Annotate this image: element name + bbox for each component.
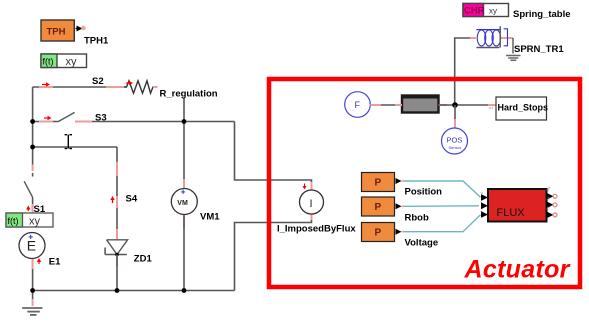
label R_regulation — [158, 86, 220, 100]
label I_ImposedByFlux — [277, 223, 356, 234]
wire: resistor to corner — [157, 87, 184, 122]
switch S3 pink leads — [39, 121, 92, 123]
wire: mid row from rail to S4 — [33, 146, 117, 148]
ground (bottom left) — [22, 291, 42, 315]
label S4 — [126, 194, 138, 205]
I-source pink lead bottom — [311, 214, 313, 220]
svg-text:S3: S3 — [95, 113, 107, 124]
label E1 — [49, 257, 61, 268]
svg-text:P: P — [375, 228, 382, 239]
tiny pin label s1 — [489, 105, 494, 110]
svg-text:ZD1: ZD1 — [134, 254, 153, 265]
signal wire: Voltage to FLUX — [404, 215, 481, 232]
P Voltage output arrow — [396, 229, 405, 235]
junction node: rail/mid row — [30, 145, 35, 150]
mass pink leads — [395, 104, 447, 106]
wire: node to I-source (down, right, down) — [235, 122, 312, 191]
red arrow S2 — [42, 82, 50, 86]
wire: S3 row left segment — [33, 121, 58, 123]
wire: S3 row right segment — [75, 121, 235, 123]
wire: VM1 column top — [183, 122, 185, 189]
svg-text:I: I — [310, 198, 313, 210]
Hard_Stops block — [496, 97, 548, 120]
P Position output arrow — [396, 178, 405, 184]
svg-text:S4: S4 — [126, 194, 138, 205]
wire: I-source return (down, left, down) — [235, 214, 312, 291]
label S1 — [34, 204, 46, 215]
wire: bottom rail — [33, 290, 235, 292]
text cursor (I-beam) — [65, 135, 72, 149]
label S2 — [92, 76, 104, 87]
P block Voltage — [362, 223, 395, 242]
svg-text:SPRN_TR1: SPRN_TR1 — [514, 44, 564, 55]
svg-text:E1: E1 — [49, 257, 61, 268]
svg-text:Sensor: Sensor — [449, 145, 462, 150]
FLUX block — [488, 189, 547, 222]
switch S4 (closed, vertical) — [116, 147, 118, 236]
svg-text:Hard_Stops: Hard_Stops — [498, 103, 549, 113]
label VM1 — [200, 212, 220, 223]
P block Position — [362, 173, 395, 192]
svg-text:xy: xy — [29, 216, 41, 228]
wire: S2 row horizontal — [33, 86, 124, 88]
switch S1 fixed contact stub — [32, 173, 34, 177]
position sensor POS — [442, 128, 468, 154]
svg-text:Position: Position — [405, 187, 443, 198]
TPH block — [41, 20, 74, 41]
FLUX input arrows — [481, 194, 488, 218]
TPH output arrow pin — [76, 26, 86, 32]
switch S4 pink leads — [116, 162, 118, 208]
signal wire: Rbob to FLUX — [404, 205, 479, 208]
E1 pink lead bottom — [32, 258, 34, 269]
switch S1 pink leads — [32, 165, 34, 214]
label Actuator — [464, 256, 571, 284]
svg-text:Voltage: Voltage — [405, 238, 439, 249]
wire: E1 to bottom rail — [32, 258, 34, 291]
red arrow S1 (up) — [26, 206, 30, 212]
label Position — [405, 187, 443, 198]
zener diode ZD1 — [105, 240, 128, 256]
wire: ZD1 to bottom rail — [116, 255, 118, 291]
svg-text:f(t): f(t) — [8, 216, 19, 226]
switch S1 blade (open) — [24, 181, 33, 197]
svg-text:P: P — [375, 178, 382, 189]
svg-text:VM: VM — [177, 200, 188, 207]
label Spring_table — [513, 9, 571, 20]
f(t)/xy block (E1 input) — [6, 213, 53, 228]
svg-text:TPH1: TPH1 — [84, 36, 109, 47]
wire: F to mass — [370, 104, 402, 106]
red arrow I (down) — [303, 184, 307, 190]
voltage source E1 — [19, 232, 45, 259]
svg-text:F: F — [355, 100, 361, 110]
VM1 pink leads — [183, 179, 185, 228]
red arrow E1 (up) — [37, 258, 41, 264]
zener pink leads — [116, 229, 118, 266]
POS pink lead — [454, 119, 456, 128]
f(t)/xy block (top) — [41, 54, 87, 68]
junction node: R/S3/VM — [182, 119, 187, 124]
wire: left rail top (S2 corner down to S1) — [32, 87, 34, 165]
red arrow resistor pin — [126, 81, 133, 85]
signal wire: Position to FLUX — [404, 181, 481, 197]
svg-text:POS: POS — [447, 136, 463, 145]
svg-text:FLUX: FLUX — [497, 207, 526, 219]
switch S3 blade (open) — [58, 112, 75, 122]
label S3 — [95, 113, 107, 124]
label SPRN_TR1 — [514, 44, 564, 55]
spring pink leads — [470, 37, 513, 39]
label TPH1 — [84, 36, 109, 47]
wire: S1 to f(t) box — [32, 198, 34, 214]
svg-text:Spring_table: Spring_table — [513, 9, 571, 20]
svg-text:TPH: TPH — [47, 27, 66, 38]
red arrow S4 (up) — [110, 196, 114, 203]
wire: resistor right pink lead — [153, 86, 161, 88]
CHR/xy block — [463, 4, 509, 17]
wire: node down to POS — [454, 105, 456, 128]
spring SPRN_TR1 (coil) — [476, 26, 507, 47]
wire: spring right to ground — [512, 38, 514, 54]
red arrow S3 — [44, 116, 52, 120]
current source I pin pink top — [311, 182, 313, 190]
junction node: rail/S3 — [30, 119, 35, 124]
label Rbob — [405, 213, 429, 224]
Hard_Stops pink lead — [488, 104, 496, 106]
svg-text:Rbob: Rbob — [405, 213, 429, 224]
label ZD1 — [134, 254, 153, 265]
svg-text:f(t): f(t) — [43, 57, 54, 67]
P Rbob output arrow — [396, 203, 405, 209]
resistor R_regulation — [124, 81, 155, 93]
svg-text:+: + — [181, 188, 186, 197]
current source I1 — [300, 190, 324, 214]
mass block — [402, 96, 439, 113]
F pink lead — [370, 104, 381, 106]
svg-text:I_ImposedByFlux: I_ImposedByFlux — [277, 223, 356, 234]
junction node: bottom rail / E1 — [30, 288, 35, 293]
ground (spring) — [506, 56, 520, 61]
switch S2 pin leads (pink) — [39, 86, 124, 88]
svg-text:S2: S2 — [92, 76, 104, 87]
junction node: bottom rail / VM1 — [182, 288, 187, 293]
actuator boundary box — [269, 79, 580, 287]
wire: VM1 column bottom — [183, 215, 185, 291]
svg-text:VM1: VM1 — [200, 212, 220, 223]
svg-text:R_regulation: R_regulation — [160, 89, 218, 100]
FLUX output pins — [547, 193, 558, 218]
voltmeter VM1 — [171, 188, 197, 215]
svg-text:CHR: CHR — [464, 6, 485, 17]
wire: spring left + down to node — [455, 38, 476, 105]
junction node: bottom rail / ZD1 — [115, 288, 120, 293]
FLUX pin tiny labels — [479, 186, 551, 214]
svg-text:xy: xy — [489, 7, 497, 16]
svg-text:+: + — [28, 232, 33, 242]
svg-text:xy: xy — [66, 56, 78, 68]
junction node: mass/spring/POS — [452, 102, 458, 108]
force source F — [345, 92, 371, 118]
svg-text:P: P — [375, 202, 382, 213]
wire: mass to node to Hard_Stops — [439, 104, 497, 106]
svg-text:Actuator: Actuator — [464, 256, 571, 284]
P block Rbob — [362, 197, 395, 216]
label Voltage — [405, 238, 439, 249]
